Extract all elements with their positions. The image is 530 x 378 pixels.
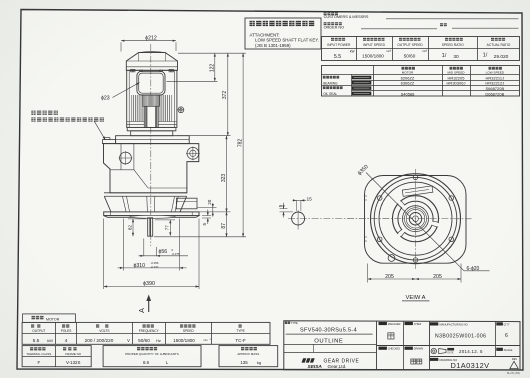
dim 20	[212, 203, 214, 217]
motor center tube	[144, 106, 158, 127]
viewA boss ring inner	[398, 201, 433, 236]
tb manager stamp	[388, 333, 394, 339]
plug note leader	[94, 121, 105, 140]
dim phi56 ext	[143, 239, 145, 257]
lubricants box	[103, 346, 201, 367]
hdr speed ratio	[445, 38, 448, 41]
dim phi56 line	[139, 255, 189, 257]
dim phi390 line	[104, 286, 199, 288]
dim 5 flange	[202, 215, 211, 217]
viewA center hole	[413, 216, 419, 222]
ext line box center	[167, 80, 218, 82]
customers underline	[386, 18, 519, 20]
dim phi212 ext lines	[120, 42, 122, 51]
tb date hdr	[447, 348, 454, 351]
viewA plate lug bot-left	[364, 236, 367, 238]
tb drawn hdr	[405, 347, 413, 350]
dim 372	[227, 53, 229, 136]
projection symbol	[431, 348, 436, 353]
hdr thermal class	[30, 347, 33, 350]
row label bearing	[323, 76, 326, 79]
hdr approx mass	[241, 347, 244, 350]
motor tableB hrule	[22, 356, 91, 358]
viewA bolt holes 6-phi20	[413, 175, 418, 180]
vent plug boss	[103, 140, 116, 144]
bell taper left	[104, 196, 111, 212]
bell ribs	[123, 196, 127, 211]
axis tag r1	[352, 76, 372, 80]
fan cover clamp left	[131, 69, 136, 72]
viewA nameplate tag	[402, 186, 433, 197]
hdr type	[239, 324, 242, 327]
dim 77	[169, 220, 171, 236]
viewA spigot circle	[379, 182, 452, 255]
motor tag box	[23, 314, 76, 323]
dim 87	[226, 212, 228, 237]
bearing row rules	[352, 80, 520, 82]
case bolt boss right	[187, 147, 199, 159]
tb scale hdr	[496, 348, 503, 351]
tb chief hdr	[405, 322, 413, 325]
performance col lines	[356, 37, 358, 61]
tb qty hdr	[496, 322, 503, 325]
tb mfg no hdr	[430, 322, 438, 325]
performance header rule	[322, 48, 520, 50]
tb rev triangle	[510, 361, 519, 368]
order no underline	[361, 28, 437, 30]
ext line motor top	[178, 52, 246, 54]
viewA flange OD circle	[371, 174, 461, 264]
spigot lip	[130, 215, 176, 218]
dwg no underline	[452, 27, 519, 29]
order no label JP	[324, 22, 327, 25]
bell taper right	[180, 196, 187, 212]
motor adapter flange	[127, 127, 176, 130]
hdr volts	[96, 324, 99, 327]
bearing col lines	[373, 66, 375, 97]
viewA boss ring outer	[393, 196, 439, 242]
front view centerline	[150, 44, 152, 246]
hdr speed	[180, 324, 183, 327]
hdr frame no	[63, 347, 66, 350]
viewA v centerline	[415, 169, 417, 269]
approx mass box	[219, 346, 278, 367]
hdr output speed	[399, 38, 402, 41]
row label oil seal	[323, 86, 326, 89]
earth terminal	[178, 107, 184, 113]
flange lower rim	[104, 216, 199, 218]
bearing header rule	[322, 74, 520, 76]
title block frame	[284, 321, 520, 370]
cable gland block	[143, 95, 160, 106]
viewA base plate	[365, 176, 467, 264]
hdr output	[31, 324, 34, 327]
viewA diag leader	[366, 173, 464, 271]
motor cooling fins	[132, 95, 134, 122]
dim 782	[242, 53, 244, 237]
dim phi310 line	[118, 267, 187, 269]
dim phi390 ext	[103, 219, 105, 290]
dim 122	[214, 53, 216, 81]
viewA rib slots	[398, 201, 404, 207]
viewA plate lug top-left	[364, 195, 367, 197]
tb left cell divider	[313, 344, 315, 352]
gear case body	[104, 144, 199, 193]
hdr actual ratio	[491, 38, 494, 41]
plug note line1 JP	[31, 111, 35, 115]
dwg no label JP	[440, 23, 443, 26]
dim 82	[132, 219, 134, 236]
tb v dividers	[376, 321, 378, 370]
hdr motor col	[402, 67, 405, 70]
dim205 ext lines	[367, 264, 369, 283]
attachment JP title	[250, 21, 255, 26]
motor tableB frame	[22, 346, 91, 367]
output shaft	[148, 218, 153, 236]
customers label JP	[324, 12, 327, 15]
motor fan cover	[126, 53, 177, 71]
motor tableA cols	[55, 322, 57, 344]
plug note line2 JP	[31, 117, 35, 121]
hdr poles	[62, 324, 65, 327]
tb checked hdr	[379, 347, 387, 350]
ext line mount face	[177, 135, 231, 137]
motor tableB col	[55, 346, 57, 367]
case interior lines	[120, 144, 122, 170]
grease nipple centerline	[297, 210, 299, 229]
tb type label	[285, 322, 287, 324]
ext line shaft end	[154, 236, 246, 238]
tb drawn stamp	[411, 359, 416, 364]
axis tag r2	[352, 81, 372, 85]
dim 15	[293, 199, 306, 201]
case bottom line	[104, 192, 187, 194]
dim205 line	[368, 278, 461, 280]
axis tag r3	[352, 86, 372, 90]
terminal box	[137, 71, 165, 95]
dim phi310 ext	[122, 219, 124, 271]
drain boss right	[176, 198, 197, 209]
fan cover clamp right	[169, 69, 174, 72]
logo mark slashed	[302, 358, 315, 362]
attachment note box	[245, 18, 321, 49]
viewA h centerline	[288, 218, 472, 220]
tb drawing no hdr	[430, 358, 438, 361]
dim 323	[226, 136, 228, 212]
performance table frame	[322, 37, 520, 61]
viewA bearing housing circles	[403, 206, 429, 232]
motor frame	[127, 70, 177, 127]
viewA small hole plate	[388, 255, 395, 262]
dim 5 nipple	[280, 208, 288, 210]
dim phi212 line	[121, 40, 176, 42]
output flange plate	[104, 212, 199, 216]
tb manager hdr	[379, 322, 387, 325]
hdr low speed col	[489, 67, 492, 70]
motor tableA hrule	[22, 333, 270, 335]
case bolt boss left	[120, 152, 132, 164]
hdr lubricants	[137, 347, 140, 350]
viewA shaft circle	[409, 213, 421, 225]
ext line case step	[198, 206, 217, 208]
hdr input power	[331, 38, 334, 41]
ext line flange top	[200, 211, 231, 213]
grease nipple circle	[292, 212, 305, 225]
gearbox top plate	[116, 136, 190, 144]
tb h dividers	[377, 345, 521, 347]
hdr frequency	[143, 324, 146, 327]
hdr mid speed col	[450, 67, 453, 70]
viewA bolt circle	[374, 177, 457, 260]
motor tableA frame	[22, 322, 270, 344]
tb type underline	[286, 333, 373, 335]
view arrow A	[148, 298, 150, 312]
adapter neck	[131, 131, 173, 136]
axis tag r4	[352, 92, 372, 96]
bearing table frame	[322, 66, 520, 97]
hdr input speed	[363, 38, 366, 41]
